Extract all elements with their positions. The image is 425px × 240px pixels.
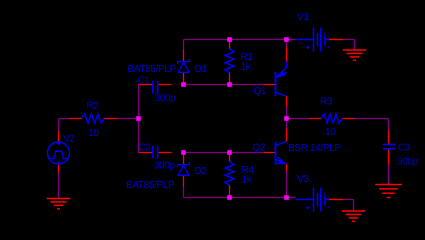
junction node R4 bottom: [227, 195, 232, 200]
pin Q2 emitter: [286, 164, 288, 171]
svg-text:V2: V2: [63, 134, 75, 145]
pin R4 top: [229, 153, 231, 162]
junction node left C1/C2/R2: [136, 116, 141, 121]
svg-text:D2: D2: [195, 166, 208, 177]
svg-text:C1: C1: [138, 76, 151, 87]
wire D1 top stub: [183, 40, 185, 51]
wire bottom rail: [184, 197, 296, 199]
wire mid node vertical: [286, 106, 288, 129]
junction node Q2/V3: [284, 195, 289, 200]
svg-text:BAT85/PLP: BAT85/PLP: [126, 180, 175, 191]
wire V2 top corner: [59, 119, 70, 132]
wire top rail: [184, 39, 296, 41]
svg-text:V3: V3: [297, 174, 309, 185]
pin Q2 base: [264, 152, 275, 154]
svg-text:C3: C3: [398, 143, 411, 154]
diode D2: [178, 162, 190, 175]
pin D2 cathode: [183, 153, 185, 164]
pin C3 bottom: [388, 150, 390, 165]
wire R3 to C3 corner: [354, 119, 389, 131]
pin Q2 collector: [286, 129, 288, 142]
wire V2 bottom to ground: [58, 172, 60, 199]
pin C3 top: [388, 130, 390, 144]
pin D1 cathode: [183, 50, 185, 62]
capacitor C1: [153, 81, 158, 94]
pin C1 right: [159, 84, 172, 86]
capacitor C3: [383, 145, 395, 149]
wire C3 to ground: [388, 164, 390, 185]
svg-text:10: 10: [325, 127, 336, 138]
diode D1: [178, 59, 190, 72]
svg-text:D1: D1: [195, 64, 208, 75]
wire rail D1-R1-Q1base: [184, 84, 265, 86]
pin R3 right: [343, 118, 355, 120]
svg-text:R2: R2: [87, 101, 100, 112]
pin D2 anode: [183, 176, 185, 187]
pin Q1 emitter: [286, 47, 288, 62]
capacitor C2: [153, 146, 158, 159]
ground C3: [375, 185, 402, 198]
pulse source V2: [48, 142, 70, 164]
wire Q2 emitter stub: [286, 171, 288, 198]
svg-text:1k: 1k: [241, 62, 252, 73]
junction node R1 bottom: [227, 82, 232, 87]
pin C1 left: [139, 84, 153, 86]
svg-text:1k: 1k: [242, 174, 253, 185]
svg-text:10: 10: [88, 128, 99, 139]
pin R1 bottom: [229, 73, 231, 85]
svg-text:C2: C2: [139, 143, 152, 154]
svg-text:300p: 300p: [154, 161, 176, 172]
pin D1 anode: [183, 73, 185, 84]
pin R4 bottom: [229, 185, 231, 197]
pin V2 top: [58, 131, 60, 143]
pin V1 plus: [329, 39, 344, 41]
wire Q1 emitter stub: [286, 40, 288, 48]
transistor Q1: [276, 62, 287, 97]
wire vertical C1-node-C2: [138, 85, 140, 154]
pin V2 bottom: [58, 164, 60, 173]
svg-text:BAT85/PLP: BAT85/PLP: [128, 64, 177, 75]
resistor R1: [225, 49, 234, 74]
wire V3 plus to ground: [343, 200, 354, 212]
pin R3 left: [310, 118, 322, 120]
pin Q1 collector: [286, 96, 288, 107]
transistor Q2: [276, 141, 287, 165]
wire R2 to node: [116, 118, 139, 120]
svg-text:300p: 300p: [397, 157, 419, 168]
svg-text:V1: V1: [297, 12, 309, 23]
junction node R1 top rail: [227, 37, 232, 42]
wire mid node to R3: [287, 118, 311, 120]
pin Q1 base: [264, 84, 275, 86]
svg-text:300p: 300p: [155, 93, 177, 104]
pin R1 top: [229, 41, 231, 50]
junction node D1/C1: [181, 82, 186, 87]
pin V3 plus: [329, 199, 344, 201]
junction node V1/Q1 top rail: [284, 37, 289, 42]
pin C2 left: [139, 152, 152, 154]
junction node C2/D2: [181, 150, 186, 155]
junction node mid Q1/Q2/R3: [284, 116, 289, 121]
wire rail C2-R4-Q2base: [184, 152, 265, 154]
ground V3: [342, 211, 366, 221]
resistor R4: [225, 161, 234, 185]
ground V1: [343, 50, 367, 60]
pin R2 right: [104, 118, 117, 120]
svg-text:Q2: Q2: [253, 143, 266, 154]
wire V1 plus to ground: [343, 40, 355, 51]
svg-text:R3: R3: [320, 97, 333, 108]
pin C2 right: [159, 152, 172, 154]
wire D2 anode to bottom rail: [183, 186, 185, 198]
battery V1: [296, 28, 330, 52]
battery V3: [296, 188, 330, 212]
ground V2: [47, 199, 71, 209]
resistor R2: [81, 114, 104, 123]
junction node R4 top: [227, 150, 232, 155]
svg-text:Q1: Q1: [254, 86, 267, 97]
resistor R3: [321, 114, 343, 123]
svg-text:BSR 14/PLP: BSR 14/PLP: [288, 143, 341, 154]
pin R2 left: [69, 118, 82, 120]
